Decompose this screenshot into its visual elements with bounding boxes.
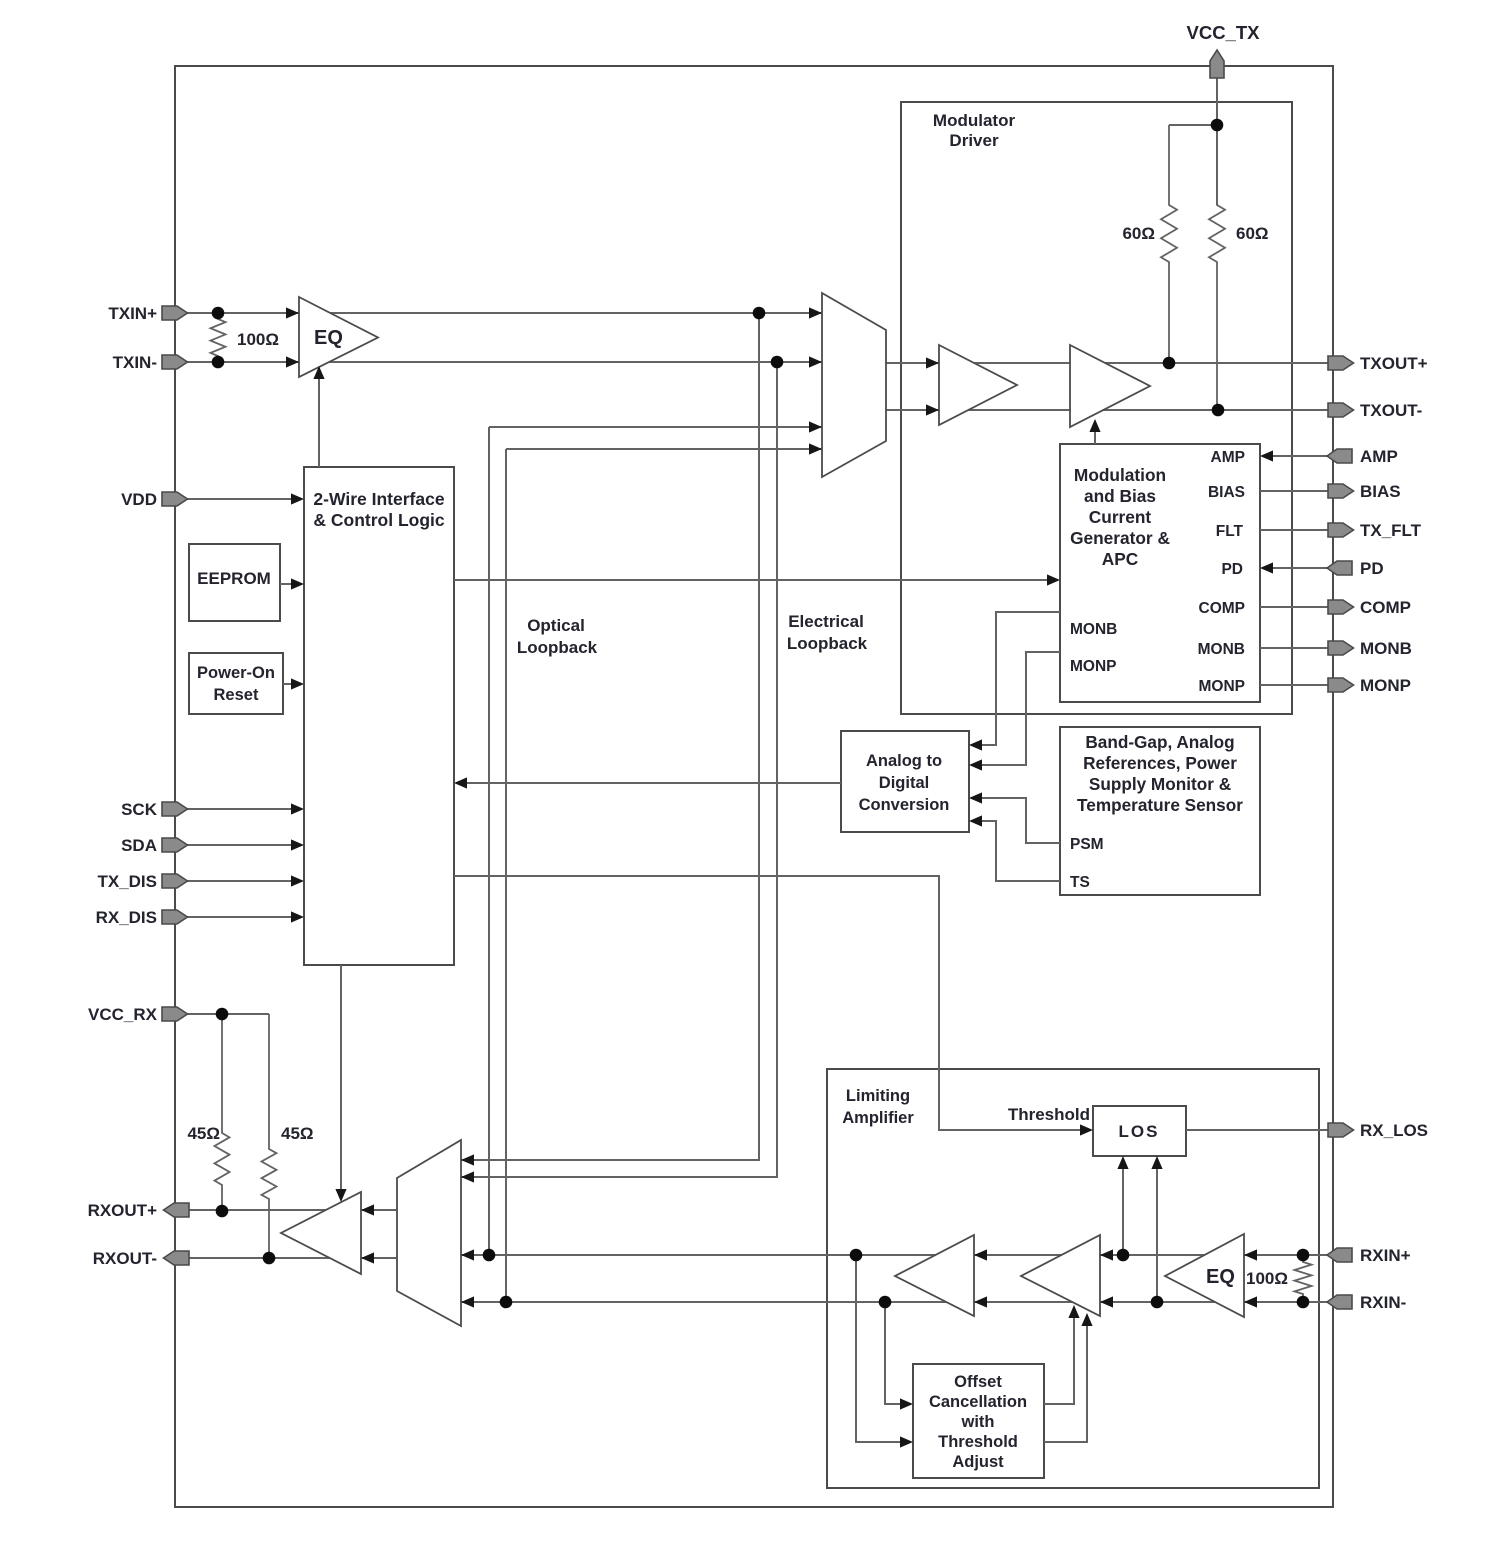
svg-text:AMP: AMP (1211, 449, 1245, 466)
wire VCC_TX stem (1216, 78, 1218, 205)
arrow RX mux input 1 (461, 1154, 474, 1165)
wire VCC_RX feed (187, 1013, 269, 1015)
wire LOS sense positive (1122, 1163, 1124, 1255)
arrow RX stage2 upper (1100, 1249, 1113, 1260)
svg-text:Power-On: Power-On (197, 664, 275, 682)
svg-text:Cancellation: Cancellation (929, 1393, 1027, 1411)
junction electrical loopback tap positive (753, 307, 766, 320)
svg-text:VDD: VDD (121, 490, 157, 509)
arrow PSM into ADC (969, 792, 982, 803)
arrow EEPROM (291, 578, 304, 589)
svg-text:PD: PD (1221, 561, 1243, 578)
wire offset output upper (1044, 1311, 1074, 1404)
arrow RX mux input 2 (461, 1171, 474, 1182)
junction RXIN- termination (1297, 1296, 1310, 1309)
pin BIAS (1328, 484, 1354, 498)
resistor 100 ohm TX termination (211, 313, 226, 362)
arrow RX stage1 upper (974, 1249, 987, 1260)
svg-text:TX_FLT: TX_FLT (1360, 521, 1422, 540)
svg-text:References, Power: References, Power (1083, 753, 1237, 773)
svg-text:VCC_TX: VCC_TX (1187, 22, 1261, 43)
wire APC control to output stage (1094, 426, 1096, 444)
junction 45 ohm right at RXOUT- (263, 1252, 276, 1265)
arrow TX stage1 upper (926, 357, 939, 368)
block Limiting Amplifier (827, 1069, 1319, 1488)
arrow into EQ lower (286, 356, 299, 367)
wire PD pin to modulation block (1266, 567, 1330, 569)
svg-text:PD: PD (1360, 559, 1384, 578)
pin SDA (162, 838, 188, 852)
junction optical loopback tap positive (483, 1249, 496, 1262)
arrow RX stage2 lower (1100, 1296, 1113, 1307)
svg-text:with: with (961, 1413, 995, 1431)
wire electrical loopback from TXIN+ (461, 313, 759, 1160)
svg-text:TXOUT-: TXOUT- (1360, 401, 1422, 420)
svg-text:TXIN-: TXIN- (113, 353, 157, 372)
arrow PD into modulation block (1260, 562, 1273, 573)
arrow TX mux input 1 (809, 307, 822, 318)
svg-text:BIAS: BIAS (1360, 482, 1401, 501)
pin SCK (162, 802, 188, 816)
svg-text:FLT: FLT (1216, 523, 1244, 540)
svg-text:Supply Monitor &: Supply Monitor & (1089, 774, 1231, 794)
wire optical loopback lower vertical (505, 449, 507, 1302)
wire TXIN- to TX mux (187, 361, 822, 363)
wire TX path negative to TXOUT- (886, 409, 1330, 411)
pin RX_DIS (162, 910, 188, 924)
wire TS to ADC (975, 821, 1060, 881)
svg-text:Digital: Digital (879, 774, 929, 792)
pin PD (1327, 561, 1352, 575)
arrow offset output lower (1081, 1313, 1092, 1326)
arrow RX driver upper (361, 1204, 374, 1215)
svg-text:Conversion: Conversion (859, 796, 950, 814)
junction LOS tap positive (1117, 1249, 1130, 1262)
op-amp TX driver stage 2 (1070, 345, 1150, 427)
wire TX_DIS to 2-wire box (187, 880, 298, 882)
svg-text:Adjust: Adjust (952, 1453, 1004, 1471)
arrow RX stage1 lower (974, 1296, 987, 1307)
svg-text:RXOUT+: RXOUT+ (88, 1201, 158, 1220)
svg-text:EEPROM: EEPROM (197, 569, 271, 588)
arrow into EQ upper (286, 307, 299, 318)
wire VDD to 2-wire box (187, 498, 298, 500)
pin RXIN+ (1327, 1248, 1352, 1262)
svg-text:TS: TS (1070, 874, 1090, 891)
svg-text:RXOUT-: RXOUT- (93, 1249, 157, 1268)
wire MONB pin (1260, 647, 1330, 649)
wire COMP pin (1260, 606, 1330, 608)
wire RXOUT- line (180, 1257, 397, 1259)
wire electrical loopback from TXIN- (461, 362, 777, 1177)
arrow RX EQ lower (1244, 1296, 1257, 1307)
arrow APC to output stage (1089, 419, 1100, 432)
arrow TX mux input 4 (809, 443, 822, 454)
svg-text:Amplifier: Amplifier (842, 1109, 914, 1127)
svg-text:45Ω: 45Ω (187, 1124, 220, 1143)
arrow MONB into ADC (969, 739, 982, 750)
resistor 100 ohm RX termination (1295, 1255, 1312, 1302)
wire AMP pin to modulation block (1266, 455, 1330, 457)
arrow SDA (291, 839, 304, 850)
block Offset Cancellation with Threshold Adjust (913, 1364, 1044, 1478)
svg-text:SDA: SDA (121, 836, 157, 855)
block Analog to Digital Conversion (841, 731, 969, 832)
arrow Power-On Reset (291, 678, 304, 689)
block 2-Wire Interface and Control Logic (304, 467, 454, 965)
svg-text:Electrical: Electrical (788, 612, 864, 631)
svg-text:60Ω: 60Ω (1122, 224, 1155, 243)
wire PSM to ADC (975, 798, 1060, 843)
block LOS (1093, 1106, 1186, 1156)
arrow RX_DIS (291, 911, 304, 922)
wire optical loopback upper horizontal (489, 426, 822, 428)
svg-text:AMP: AMP (1360, 447, 1398, 466)
pin VCC_TX (1210, 50, 1224, 78)
junction RXIN+ termination (1297, 1249, 1310, 1262)
svg-text:BIAS: BIAS (1208, 484, 1245, 501)
svg-text:TXOUT+: TXOUT+ (1360, 354, 1428, 373)
svg-text:and Bias: and Bias (1084, 486, 1156, 506)
svg-text:LOS: LOS (1119, 1122, 1160, 1141)
svg-text:RXIN-: RXIN- (1360, 1293, 1406, 1312)
arrow threshold into LOS (1080, 1124, 1093, 1135)
arrow RX driver lower (361, 1252, 374, 1263)
junction LOS tap negative (1151, 1296, 1164, 1309)
arrow RX mux input 4 (461, 1296, 474, 1307)
wire EQ control from 2-wire box (318, 372, 320, 467)
resistor 45 ohm left (215, 1014, 230, 1211)
svg-text:Loopback: Loopback (787, 634, 868, 653)
svg-text:RX_DIS: RX_DIS (96, 908, 157, 927)
resistor 60 ohm right (1209, 125, 1225, 410)
wire optical loopback lower horizontal (506, 448, 822, 450)
arrow SCK (291, 803, 304, 814)
arrow control into modulation block (1047, 574, 1060, 585)
arrow TX mux input 2 (809, 356, 822, 367)
pin RX_LOS (1328, 1123, 1354, 1137)
wire optical loopback upper vertical (488, 427, 490, 1255)
svg-text:Optical: Optical (527, 616, 585, 635)
pin RXOUT- (164, 1251, 190, 1265)
junction TXIN+ termination (212, 307, 225, 320)
junction electrical loopback tap negative (771, 356, 784, 369)
junction VCC_RX node (216, 1008, 229, 1021)
pin TXOUT+ (1328, 356, 1354, 370)
svg-text:Modulation: Modulation (1074, 465, 1166, 485)
svg-text:2-Wire Interface: 2-Wire Interface (313, 489, 444, 509)
wire offset feed upper (885, 1302, 906, 1404)
arrow RX mux input 3 (461, 1249, 474, 1260)
arrow LOS sense positive (1117, 1156, 1128, 1169)
junction VCC_TX node (1211, 119, 1224, 132)
resistor 60 ohm left (1161, 125, 1177, 363)
resistor 45 ohm right (262, 1014, 277, 1258)
svg-text:Current: Current (1089, 507, 1152, 527)
svg-text:Loopback: Loopback (517, 638, 598, 657)
arrow TS into ADC (969, 815, 982, 826)
svg-text:SCK: SCK (121, 800, 158, 819)
wire RX_DIS to 2-wire box (187, 916, 298, 918)
arrow LOS sense negative (1151, 1156, 1162, 1169)
pin TX_DIS (162, 874, 188, 888)
pin RXIN- (1327, 1295, 1352, 1309)
wire LOS sense negative (1156, 1163, 1158, 1302)
svg-text:Generator &: Generator & (1070, 528, 1170, 548)
svg-text:Reset: Reset (214, 686, 259, 704)
wire threshold from 2-wire to LOS (454, 876, 1087, 1130)
junction optical loopback tap negative (500, 1296, 513, 1309)
junction TXIN- termination (212, 356, 225, 369)
svg-text:RXIN+: RXIN+ (1360, 1246, 1411, 1265)
wire EEPROM to 2-wire box (280, 583, 298, 585)
mux TX input selector (822, 293, 886, 477)
arrow offset output upper (1068, 1305, 1079, 1318)
svg-text:60Ω: 60Ω (1236, 224, 1269, 243)
svg-text:& Control Logic: & Control Logic (313, 510, 445, 530)
wire BIAS pin (1260, 490, 1330, 492)
svg-text:Analog to: Analog to (866, 752, 942, 770)
block Modulation and Bias Current Generator APC (1060, 444, 1260, 702)
op-amp RX limiting stage 1 (895, 1235, 974, 1316)
svg-text:MONP: MONP (1070, 658, 1117, 675)
chip outline (175, 66, 1333, 1507)
junction 45 ohm left at RXOUT+ (216, 1205, 229, 1218)
arrow TX stage1 lower (926, 404, 939, 415)
junction offset tap positive (850, 1249, 863, 1262)
pin VDD (162, 492, 188, 506)
arrow ADC into 2-wire box (454, 777, 467, 788)
pin COMP (1328, 600, 1354, 614)
wire RXOUT+ line (180, 1209, 397, 1211)
arrow offset feed upper (900, 1398, 913, 1409)
pin MONP (1328, 678, 1354, 692)
op-amp EQ RX input equalizer (1165, 1234, 1244, 1317)
wire TXIN+ to TX mux (187, 312, 822, 314)
arrow VDD (291, 493, 304, 504)
svg-text:COMP: COMP (1360, 598, 1411, 617)
svg-text:MONP: MONP (1360, 676, 1411, 695)
arrow EQ control (313, 366, 324, 379)
svg-text:Temperature Sensor: Temperature Sensor (1077, 795, 1243, 815)
svg-text:Band-Gap, Analog: Band-Gap, Analog (1085, 732, 1234, 752)
wire offset output lower (1044, 1319, 1087, 1442)
pin TXIN+ (162, 306, 188, 320)
wire MONP pin (1260, 684, 1330, 686)
svg-text:APC: APC (1102, 549, 1139, 569)
svg-text:45Ω: 45Ω (281, 1124, 314, 1143)
op-amp RX output driver (281, 1192, 361, 1274)
svg-text:MONB: MONB (1360, 639, 1412, 658)
svg-text:TX_DIS: TX_DIS (97, 872, 157, 891)
arrow MONP into ADC (969, 759, 982, 770)
svg-text:Threshold: Threshold (1008, 1105, 1090, 1124)
svg-text:TXIN+: TXIN+ (108, 304, 157, 323)
pin MONB (1328, 641, 1354, 655)
svg-text:MONB: MONB (1198, 641, 1245, 658)
op-amp TX driver stage 1 (939, 345, 1017, 425)
svg-text:EQ: EQ (314, 327, 343, 349)
wire 60 ohm tie bar (1169, 124, 1217, 126)
svg-text:VCC_RX: VCC_RX (88, 1005, 158, 1024)
junction 60 ohm left at TXOUT+ (1163, 357, 1176, 370)
junction offset tap negative (879, 1296, 892, 1309)
svg-text:Threshold: Threshold (938, 1433, 1018, 1451)
svg-text:Limiting: Limiting (846, 1087, 910, 1105)
pin TXIN- (162, 355, 188, 369)
pin RXOUT+ (164, 1203, 190, 1217)
arrow AMP into modulation block (1260, 450, 1273, 461)
svg-text:EQ: EQ (1206, 1266, 1235, 1288)
wire RX signal negative (461, 1301, 1330, 1303)
arrow RX EQ upper (1244, 1249, 1257, 1260)
svg-text:Offset: Offset (954, 1373, 1002, 1391)
arrow TX mux input 3 (809, 421, 822, 432)
op-amp RX limiting stage 2 (1021, 1235, 1100, 1316)
block Band-Gap Analog References (1060, 727, 1260, 895)
svg-text:Modulator: Modulator (933, 111, 1016, 130)
svg-text:PSM: PSM (1070, 836, 1104, 853)
wire RX signal positive (461, 1254, 1330, 1256)
wire LOS to RX_LOS pin (1186, 1129, 1330, 1131)
wire control 2-wire to modulation block (454, 579, 1052, 581)
wire SCK to 2-wire box (187, 808, 298, 810)
wire 2-wire box to RX output driver (340, 965, 342, 1196)
svg-text:100Ω: 100Ω (237, 330, 279, 349)
svg-text:Driver: Driver (949, 131, 999, 150)
block EEPROM (189, 544, 280, 621)
wire MONB to ADC (975, 612, 1060, 745)
wire Power-On Reset to 2-wire box (283, 683, 298, 685)
wire SDA to 2-wire box (187, 844, 298, 846)
arrow TX_DIS (291, 875, 304, 886)
svg-text:MONB: MONB (1070, 621, 1117, 638)
svg-text:COMP: COMP (1199, 600, 1246, 617)
pin TXOUT- (1328, 403, 1354, 417)
svg-text:RX_LOS: RX_LOS (1360, 1121, 1428, 1140)
wire offset feed lower (856, 1255, 906, 1442)
mux RX output selector (397, 1140, 461, 1326)
wire ADC to 2-wire box (461, 782, 841, 784)
svg-text:MONP: MONP (1199, 678, 1246, 695)
junction 60 ohm right at TXOUT- (1212, 404, 1225, 417)
block Modulator Driver (901, 102, 1292, 714)
block Power-On Reset (189, 653, 283, 714)
svg-text:100Ω: 100Ω (1246, 1269, 1288, 1288)
op-amp EQ TX input equalizer (299, 297, 378, 377)
arrow RX driver control (335, 1189, 346, 1202)
wire FLT to TX_FLT pin (1260, 529, 1330, 531)
wire MONP to ADC (975, 652, 1060, 765)
pin VCC_RX (162, 1007, 188, 1021)
pin TX_FLT (1328, 523, 1354, 537)
pin AMP (1327, 449, 1352, 463)
arrow offset feed lower (900, 1436, 913, 1447)
wire TX path positive to TXOUT+ (886, 362, 1330, 364)
